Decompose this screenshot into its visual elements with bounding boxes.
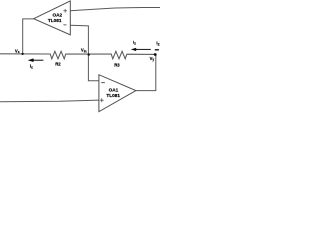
wire OA2 output to node Vx bbox=[23, 19, 34, 54]
op-amp OA2 plus input symbol bbox=[63, 9, 67, 13]
node Vy junction dot bbox=[154, 53, 157, 56]
wire OA2 inverting input down to node Vin and OA1 inverting input bbox=[70, 25, 99, 81]
svg-text:OA2: OA2 bbox=[53, 12, 63, 17]
op-amp OA1 body bbox=[99, 75, 136, 112]
current arrow I2 right edge bbox=[155, 49, 159, 51]
op-amp OA1 minus input symbol bbox=[101, 82, 105, 84]
current arrow Ix left bbox=[28, 58, 44, 62]
node Vin junction dot bbox=[88, 53, 90, 55]
wire OA2 noninverting input to right edge bbox=[70, 7, 160, 10]
wire main horizontal rail with R2 and R3 inline bbox=[0, 51, 155, 59]
op-amp OA2 body bbox=[34, 1, 71, 35]
svg-text:OA1: OA1 bbox=[109, 88, 119, 93]
node Vx junction dot bbox=[21, 53, 23, 55]
current arrow Ix right bbox=[131, 48, 151, 51]
op-amp OA2 minus input symbol bbox=[63, 24, 66, 26]
svg-text:R3: R3 bbox=[114, 63, 120, 68]
wire bottom rail to OA1 noninverting input bbox=[0, 100, 99, 102]
op-amp OA1 plus input symbol bbox=[100, 98, 104, 102]
svg-text:TL081: TL081 bbox=[106, 93, 120, 98]
svg-text:TL081: TL081 bbox=[48, 18, 62, 23]
svg-text:R2: R2 bbox=[55, 62, 61, 67]
wire OA1 output feedback up to node Vy bbox=[136, 54, 156, 90]
